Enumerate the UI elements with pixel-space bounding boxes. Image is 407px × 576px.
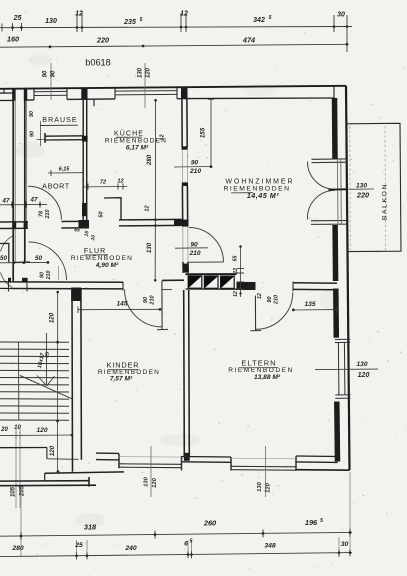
svg-text:90: 90 xyxy=(30,131,36,137)
svg-text:ABORT: ABORT xyxy=(42,182,70,191)
Kueche bottom wall xyxy=(119,219,182,226)
W2 door1 crossbar bottom xyxy=(182,182,188,186)
east outer wall xyxy=(346,86,350,470)
rotated window dim 130/120 (Kueche) xyxy=(138,67,152,78)
Kinder door leaf xyxy=(161,281,163,330)
stair west wall (Kinder west wall) xyxy=(72,290,81,472)
Eltern door jamb tick xyxy=(292,282,294,291)
svg-text:50: 50 xyxy=(35,255,42,262)
svg-text:FLUR: FLUR xyxy=(84,248,106,255)
entry door arc xyxy=(29,242,67,280)
french door meeting dash xyxy=(329,188,347,190)
labels line B xyxy=(7,35,255,45)
room label WOHNZIMMER group xyxy=(223,179,294,200)
stair treads xyxy=(0,342,69,420)
room label KUECHE group xyxy=(105,130,167,152)
svg-text:25: 25 xyxy=(13,15,22,22)
stair bay outer south wall xyxy=(0,477,96,487)
svg-text:50: 50 xyxy=(99,211,105,217)
svg-text:280: 280 xyxy=(146,154,153,166)
svg-text:90: 90 xyxy=(40,272,46,278)
bottom dimension line D xyxy=(0,539,352,560)
W2 junction block at Kueche wall xyxy=(182,220,188,227)
french door arc upper xyxy=(307,162,334,190)
Abort door arc xyxy=(28,186,61,219)
svg-text:120: 120 xyxy=(36,427,47,434)
svg-text:12: 12 xyxy=(160,134,166,141)
Kinder label underline xyxy=(108,369,138,371)
dim 47 / 47 (Abort door) xyxy=(0,197,47,208)
svg-text:55: 55 xyxy=(233,256,239,262)
Flur door arc and leaf xyxy=(189,228,224,263)
svg-text:12: 12 xyxy=(75,11,83,18)
Brause wall junction block xyxy=(82,136,88,142)
Wohnzimmer label underlines xyxy=(231,192,253,194)
small dim 645 in Abort xyxy=(48,167,83,177)
svg-text:474: 474 xyxy=(242,36,255,45)
svg-text:260: 260 xyxy=(203,519,217,528)
dim 50 / 50 (entry doors) xyxy=(0,243,59,282)
party wall (left, staircase wall) vertical lines xyxy=(13,94,25,283)
Eltern door leaf xyxy=(254,296,256,331)
rotated door dim 90/210 (entry door) xyxy=(40,271,53,281)
Kinder window centerline and rotated dim 130/120 xyxy=(144,446,159,497)
niche dim line 72 / 12 xyxy=(84,179,127,190)
svg-text:220: 220 xyxy=(356,191,369,200)
svg-text:25: 25 xyxy=(74,542,83,549)
chimney flue box 2 xyxy=(204,276,218,288)
Kinder window glass line xyxy=(119,456,182,459)
svg-text:130: 130 xyxy=(257,481,263,491)
rotated door dim 90/90 (Brause) xyxy=(29,111,36,137)
bottom extension lines xyxy=(21,472,350,557)
stair walk line with arrow xyxy=(37,333,55,386)
svg-text:120: 120 xyxy=(146,67,152,78)
stair bay corner vertical xyxy=(46,448,48,459)
svg-text:120: 120 xyxy=(358,372,370,379)
french door frame verticals xyxy=(338,159,342,225)
labels line A xyxy=(13,11,345,27)
svg-text:6.15: 6.15 xyxy=(59,167,71,173)
svg-text:13,88 M²: 13,88 M² xyxy=(254,374,281,381)
Eltern window jambs xyxy=(231,456,296,471)
french door arc lower xyxy=(307,190,334,219)
niche black rect xyxy=(82,203,86,216)
svg-text:120: 120 xyxy=(49,445,56,456)
svg-text:210: 210 xyxy=(45,210,51,220)
niche corner wall xyxy=(104,198,121,220)
svg-text:14,45 M²: 14,45 M² xyxy=(247,191,279,200)
east wall pier 2 (poche) xyxy=(332,225,338,281)
wall W2 Kueche/Flur vs Wohnzimmer: upper segment xyxy=(182,99,187,147)
svg-text:90: 90 xyxy=(190,242,198,249)
svg-text:12: 12 xyxy=(180,11,188,18)
stair bay step vertical xyxy=(44,473,46,481)
stair break line diagonal xyxy=(20,376,72,399)
svg-text:5: 5 xyxy=(320,518,323,524)
svg-text:205: 205 xyxy=(20,485,26,497)
door dim 90/210 (Eltern) rotated xyxy=(267,295,280,305)
rotated door dim 78/210 (Abort) xyxy=(39,210,52,220)
stair stringer line xyxy=(18,342,20,420)
dividing wall bottom junction block xyxy=(184,453,190,461)
Kueche label underline xyxy=(116,136,142,138)
north wall window jamb ticks xyxy=(4,86,334,106)
window centerline Brause xyxy=(50,63,52,100)
rotated dims 105 / 205 xyxy=(11,485,26,497)
svg-text:130: 130 xyxy=(144,476,150,486)
Eltern window glass line xyxy=(231,457,296,460)
door dim 90/210 (Flur-Wohnzimmer) xyxy=(175,242,208,258)
rotated window dim 90/90 (Brause) xyxy=(43,70,57,77)
svg-text:20: 20 xyxy=(248,283,254,290)
svg-text:RIEMENBODEN: RIEMENBODEN xyxy=(105,138,167,145)
south-east outer corner wall xyxy=(296,469,350,472)
chimney flue box 3 xyxy=(221,276,235,288)
dimension line B xyxy=(0,44,347,47)
svg-text:90: 90 xyxy=(143,297,149,303)
neighbour door arc upper (left margin) xyxy=(1,236,13,252)
window centerline Kueche xyxy=(144,63,146,108)
W2 pier block xyxy=(183,264,189,273)
svg-text:10: 10 xyxy=(14,425,21,431)
Eltern door arc xyxy=(256,292,293,329)
neighbour door arc lower (left margin) xyxy=(1,273,13,288)
svg-text:WOHNZIMMER: WOHNZIMMER xyxy=(226,179,295,186)
vertical dim line 280/130 (Kueche-Flur) xyxy=(146,99,157,282)
balcony door dim 130/220 xyxy=(349,182,375,199)
east wall pier 3 (poche) xyxy=(333,289,339,338)
svg-text:12: 12 xyxy=(233,291,239,297)
dim line 20/10/120 above stair bay xyxy=(0,425,73,439)
Eltern label underline xyxy=(241,367,277,369)
svg-text:348: 348 xyxy=(264,543,276,550)
svg-text:5: 5 xyxy=(269,15,272,21)
dim 135 (Eltern) xyxy=(292,301,337,313)
svg-text:47: 47 xyxy=(30,197,38,204)
window sill lines (Brause window) xyxy=(34,91,67,95)
interior wall south of Flur/Wohnzimmer: segment a xyxy=(13,282,123,289)
svg-text:210: 210 xyxy=(188,250,200,257)
svg-text:30: 30 xyxy=(337,12,345,19)
room label ELTERN group xyxy=(228,359,294,382)
svg-text:BALKON: BALKON xyxy=(382,183,389,220)
south wall segment right of Eltern window xyxy=(296,456,338,462)
chimney dim line with 55/12 labels xyxy=(233,245,264,299)
svg-text:90: 90 xyxy=(267,296,273,302)
tick dots line A xyxy=(11,25,348,29)
balcony outline xyxy=(347,123,401,251)
svg-text:210: 210 xyxy=(150,295,156,305)
chimney flue box 1 xyxy=(188,276,202,288)
svg-text:318: 318 xyxy=(84,523,97,532)
svg-text:6,17 M²: 6,17 M² xyxy=(126,145,149,152)
tick dots line B xyxy=(49,43,349,48)
north wall junction blocks xyxy=(12,88,187,101)
svg-text:12: 12 xyxy=(233,268,239,274)
Kinder window jambs xyxy=(119,454,182,471)
svg-text:160: 160 xyxy=(7,35,19,44)
svg-text:280: 280 xyxy=(11,545,24,552)
svg-text:220: 220 xyxy=(96,36,109,45)
vertical dim 155 (Wohnzimmer pier) xyxy=(200,99,215,167)
svg-text:235: 235 xyxy=(123,19,136,26)
Abort bottom wall xyxy=(0,221,89,228)
south wall inner+outer segment left (under Kinder) xyxy=(96,453,119,460)
svg-text:90: 90 xyxy=(29,111,35,117)
north wall outer line xyxy=(0,86,346,89)
south-east inner corner tick xyxy=(337,454,339,460)
entry door jamb tick xyxy=(13,261,30,263)
Eltern window centerline and rotated dim 130/120 xyxy=(257,446,272,497)
W2 lower segment with pier xyxy=(183,262,188,273)
door dim 90/210 (Kueche-Wohnzimmer) xyxy=(174,160,212,176)
wall stubs to left margin xyxy=(0,282,13,289)
niche small labels 65 15 10 xyxy=(74,228,97,242)
svg-text:210: 210 xyxy=(274,295,280,305)
dim 145 (Kinder) xyxy=(78,301,161,314)
W2 Kueche door opening frame lines xyxy=(182,150,187,183)
svg-text:90: 90 xyxy=(191,160,199,167)
svg-text:120: 120 xyxy=(266,482,272,492)
Kinder door left jamb tick xyxy=(122,282,124,291)
svg-text:BRAUSE: BRAUSE xyxy=(42,117,77,124)
segment d (right of Eltern door) xyxy=(293,283,337,290)
door dim 90/210 (Kinder) rotated xyxy=(143,295,156,305)
svg-text:47: 47 xyxy=(2,198,10,205)
vertical dim 120/120 at stairs xyxy=(49,291,60,473)
svg-text:120: 120 xyxy=(49,312,56,323)
svg-text:b0618: b0618 xyxy=(85,58,111,68)
stair bay inner south wall xyxy=(0,447,47,449)
svg-text:90: 90 xyxy=(43,70,49,77)
segment b (right of Kinder door) xyxy=(162,279,184,281)
Eltern east window dim 130/120 xyxy=(315,361,378,379)
north wall inner line segments xyxy=(0,93,334,101)
svg-text:6: 6 xyxy=(184,541,188,548)
balcony dashed edge lines xyxy=(349,126,352,250)
chimney block top line xyxy=(186,273,237,275)
svg-text:90: 90 xyxy=(51,70,57,77)
svg-text:72: 72 xyxy=(100,180,107,186)
french door jamb lines xyxy=(311,159,347,225)
window sill lines (Kueche window) xyxy=(115,91,177,95)
party wall junction blocks at Abort wall xyxy=(12,221,27,229)
svg-text:4,90 M²: 4,90 M² xyxy=(95,262,119,269)
Kinder south window sills xyxy=(119,464,182,468)
svg-text:5: 5 xyxy=(190,539,193,545)
Eltern east window frame xyxy=(335,339,351,398)
svg-text:65: 65 xyxy=(74,228,80,234)
svg-text:130: 130 xyxy=(146,242,153,253)
svg-text:130: 130 xyxy=(45,18,57,25)
east wall pier 4 (poche) xyxy=(334,402,340,462)
room label BRAUSE xyxy=(40,117,78,126)
Abort wall pier block xyxy=(79,220,90,228)
stair wall top junction block xyxy=(71,288,81,302)
W2 middle segment xyxy=(182,186,187,227)
svg-text:12: 12 xyxy=(257,293,263,299)
svg-text:12: 12 xyxy=(117,179,124,185)
bottom dimension line C xyxy=(0,518,352,540)
svg-text:30: 30 xyxy=(341,541,349,548)
W2 Flur door opening frame lines xyxy=(183,227,188,262)
svg-text:130: 130 xyxy=(356,361,367,368)
Kueche bottom wall pier xyxy=(174,219,182,225)
svg-text:210: 210 xyxy=(46,271,52,281)
svg-text:78: 78 xyxy=(39,211,45,217)
svg-text:145: 145 xyxy=(116,301,127,308)
Brause half wall xyxy=(45,133,83,143)
svg-text:342: 342 xyxy=(253,17,265,24)
Flur label underline xyxy=(84,254,108,256)
svg-text:20: 20 xyxy=(0,427,8,433)
chimney block bottom line xyxy=(186,288,237,290)
svg-text:135: 135 xyxy=(304,301,315,308)
svg-text:210: 210 xyxy=(189,168,201,175)
segment c (between chimney and Eltern door) xyxy=(237,283,256,290)
W2 door1 crossbar top xyxy=(182,146,188,149)
east wall pier 1 (poche) xyxy=(332,98,338,159)
room label FLUR group xyxy=(71,248,133,269)
svg-text:196: 196 xyxy=(305,518,318,527)
top dimension chain line A xyxy=(0,13,352,52)
Kinder door leaf end tick xyxy=(157,328,168,330)
svg-text:50: 50 xyxy=(0,255,7,262)
stair bay to Kinder connector wall xyxy=(45,472,124,473)
svg-text:12: 12 xyxy=(145,205,151,211)
svg-text:RIEMENBODEN: RIEMENBODEN xyxy=(71,255,133,262)
svg-text:KÜCHE: KÜCHE xyxy=(114,130,144,138)
svg-text:240: 240 xyxy=(124,545,137,552)
room label KINDER group xyxy=(98,361,160,383)
Kinder/Eltern dividing wall xyxy=(184,290,190,458)
svg-text:155: 155 xyxy=(200,127,207,138)
wall junction ticks near stair xyxy=(9,282,28,292)
svg-text:120: 120 xyxy=(152,477,158,487)
svg-text:105: 105 xyxy=(11,486,17,497)
stair bay ledge line xyxy=(47,458,79,461)
svg-text:5: 5 xyxy=(140,17,143,23)
svg-text:7,57 M²: 7,57 M² xyxy=(110,376,133,383)
Eltern south window sills xyxy=(231,466,296,470)
wall pier block left of Eltern door xyxy=(237,282,256,289)
Brause right wall xyxy=(83,99,87,227)
svg-text:130: 130 xyxy=(138,67,144,78)
svg-text:130: 130 xyxy=(356,182,367,189)
extension lines to 105/205 labels xyxy=(16,428,20,508)
stair label 16x17/25 rotated xyxy=(37,351,51,369)
Kinder door arc xyxy=(125,289,163,327)
south wall segment between windows xyxy=(182,457,232,463)
